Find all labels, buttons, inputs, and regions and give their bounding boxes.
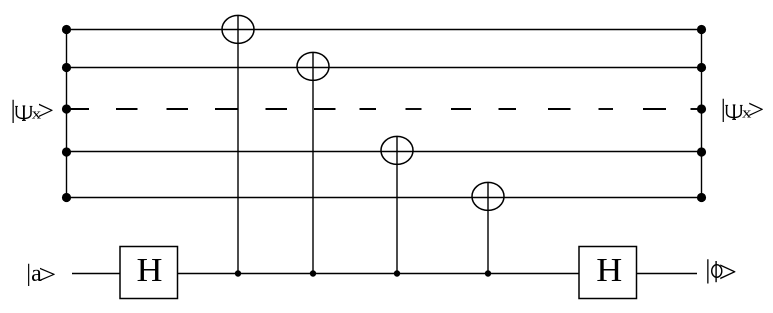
node right dot 3: [697, 104, 706, 113]
control dot 2: [310, 270, 316, 276]
label ket phi: [705, 255, 737, 289]
node left dot 2: [62, 63, 71, 72]
node left dot 5: [62, 193, 71, 202]
svg-text:>: >: [38, 260, 56, 290]
wire qubit line 4: [67, 151, 702, 153]
label psi_x right: [721, 95, 764, 125]
control dot 3: [394, 270, 400, 276]
node right dot 2: [697, 63, 706, 72]
CNOT target X1: [222, 15, 254, 43]
CNOT target X2: [297, 52, 329, 80]
wire qubit line 2: [67, 67, 702, 69]
node left dot 1: [62, 25, 71, 34]
svg-text:|: |: [11, 96, 16, 123]
wire qubit line 1: [67, 29, 702, 31]
CNOT target X3: [381, 136, 413, 164]
gate H1 box: [120, 247, 178, 299]
wire qubit line 5: [67, 197, 702, 199]
wire ancilla segment 1: [72, 273, 120, 275]
svg-text:>: >: [38, 96, 55, 126]
gate H2 box: [579, 247, 637, 299]
wire left bus rail: [66, 30, 68, 198]
node left dot 4: [62, 147, 71, 156]
node left dot 3: [62, 104, 71, 113]
wire right bus rail: [701, 30, 703, 198]
node right dot 5: [697, 193, 706, 202]
label psi_x left: [11, 96, 54, 126]
wire control line 2: [312, 53, 314, 274]
control dot 4: [485, 270, 491, 276]
wire control line 3: [396, 137, 398, 274]
svg-text:H: H: [137, 251, 163, 289]
wire control line 1: [237, 16, 239, 274]
node right dot 4: [697, 147, 706, 156]
control dot 1: [235, 270, 241, 276]
svg-text:H: H: [596, 251, 622, 289]
wire control line 4: [487, 183, 489, 274]
wire ancilla segment 2: [178, 273, 580, 275]
svg-text:|: |: [705, 255, 710, 284]
wire ancilla segment 3: [637, 273, 698, 275]
wire qubit line 3 dashed: [64, 108, 702, 110]
CNOT target X4: [472, 182, 504, 210]
svg-text:>: >: [719, 255, 737, 289]
node right dot 1: [697, 25, 706, 34]
